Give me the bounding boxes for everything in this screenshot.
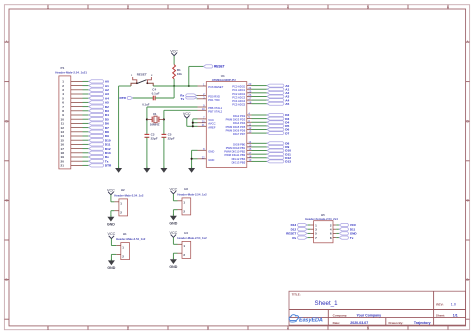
svg-text:VCC: VCC	[107, 188, 115, 192]
title block horizontal divider 1	[289, 309, 466, 311]
svg-text:Header-Male-2.54_1x2: Header-Male-2.54_1x2	[177, 236, 207, 240]
wire XTAL1 vertical	[146, 107, 148, 134]
U1 pin 5 PWM DIG3 PD3 lead	[247, 118, 252, 120]
net flag A4 at P1 pin 5	[89, 97, 104, 100]
header H4 pin 2 lead	[178, 252, 183, 254]
wire to VCC pin 7	[193, 118, 198, 120]
title block horizontal divider 2	[289, 317, 466, 319]
header H1 body	[121, 243, 130, 260]
U1 pin 3 PD1 TXD lead	[198, 98, 207, 100]
U1 pin 13 DIG7 PD7 lead	[247, 132, 252, 134]
header H1 pin 1 lead	[116, 245, 121, 247]
crystal X1 plates and body	[151, 117, 153, 123]
svg-text:PC2 ADC2: PC2 ADC2	[232, 92, 245, 96]
svg-text:RESET: RESET	[137, 72, 147, 76]
wire P1 pin 6 to net flag	[83, 101, 89, 103]
wire P1 pin 11 to net flag	[83, 122, 89, 124]
net flag D4 at U1 pin 6	[267, 121, 284, 124]
ground arrow C5	[163, 167, 165, 169]
ground arrow C3	[146, 167, 148, 169]
net flag D8 at P1 pin 13	[89, 130, 104, 133]
svg-text:D7: D7	[285, 131, 289, 135]
U1 pin 25 PC2 ADC2 lead	[247, 92, 252, 94]
wire GND bus vertical	[191, 150, 193, 168]
wire C4 to reset junction vertical	[155, 97, 174, 99]
svg-text:10k: 10k	[177, 72, 182, 76]
svg-text:1: 1	[47, 326, 49, 330]
frame zone ticks left	[4, 41, 9, 43]
capacitor C5 plates	[162, 133, 167, 135]
U1 pin 20 AVCC lead	[198, 122, 207, 124]
svg-text:GND: GND	[107, 266, 115, 270]
wire P1 pin 18 to net flag	[83, 152, 89, 154]
title block vertical divider right column	[433, 291, 435, 325]
wire R1 bottom to reset net	[173, 79, 175, 86]
svg-text:Trajectory: Trajectory	[414, 321, 431, 325]
net flag DTR at P1 pin 21	[89, 164, 104, 167]
net flag D5 at U1 pin 11	[267, 124, 284, 127]
wire U1 pin 13 to net flag	[252, 132, 268, 134]
P1 pin 7 lead	[71, 106, 83, 108]
svg-text:P1: P1	[61, 66, 65, 70]
U1 pin 11 PWM DIG5 PD5 lead	[247, 125, 252, 127]
U1 pin 12 PWM DIG6 PD6 lead	[247, 128, 252, 130]
pushbutton left lead	[131, 83, 137, 86]
junction GND pins	[191, 158, 193, 160]
wire U1 pin 19 to net flag	[252, 160, 268, 162]
wire H3 pin1 to VCC	[173, 200, 177, 202]
wire U1 pin 27 to net flag	[252, 99, 268, 101]
net flag Tx at P1 pin 20	[89, 160, 104, 163]
P1 pin 14 lead	[71, 135, 83, 137]
P1 pin 15 lead	[71, 139, 83, 141]
wire junction to IC pin 1	[174, 85, 197, 87]
wire P1 pin 14 to net flag	[83, 135, 89, 137]
net flag D13 at U1 pin 19	[267, 160, 284, 163]
junction RESET drop / reset wire	[188, 85, 190, 87]
junction crystal right	[163, 118, 165, 120]
svg-text:Tx: Tx	[181, 97, 185, 101]
net flag VCC at H5 pin 2	[339, 223, 348, 226]
svg-text:DIG4 PD4: DIG4 PD4	[233, 121, 246, 125]
P1 pin 20 lead	[71, 160, 83, 162]
wire U1 pin 26 to net flag	[252, 95, 268, 97]
ground arrow IC	[191, 167, 193, 169]
svg-text:PC5 ADC5: PC5 ADC5	[232, 103, 245, 107]
H5 pin 3 lead	[307, 228, 310, 230]
U1 pin 27 PC4 ADC4 lead	[247, 99, 252, 101]
svg-text:Rx: Rx	[292, 236, 296, 240]
net flag D6 at U1 pin 12	[267, 128, 284, 131]
svg-text:Your Company: Your Company	[357, 313, 382, 317]
svg-text:X1: X1	[153, 112, 157, 116]
wire P1 pin 17 to net flag	[83, 148, 89, 150]
wire H4 pin1 to VCC	[173, 243, 177, 245]
header H2 body	[119, 199, 128, 216]
header H4 body	[182, 241, 191, 258]
H5 pin 4 lead	[333, 228, 336, 230]
H5 pin 6 lead	[333, 232, 336, 234]
net flag D9 at P1 pin 14	[89, 134, 104, 137]
net flag A0 at U1 pin 23	[267, 84, 284, 87]
P1 pin 18 lead	[71, 152, 83, 154]
U1 pin 19 DIG13 PB5 lead	[247, 160, 252, 162]
wire P1 pin 9 to net flag	[83, 114, 89, 116]
svg-text:VCC: VCC	[208, 118, 214, 122]
net flag A5 at P1 pin 6	[89, 101, 104, 104]
net flag A0 at P1 pin 1	[89, 80, 104, 83]
svg-text:Header-Male-2.54_1x2: Header-Male-2.54_1x2	[177, 192, 207, 196]
svg-text:DTR: DTR	[105, 164, 112, 168]
header H1 pin 2 lead	[116, 253, 121, 255]
P1 pin 21 lead	[71, 164, 83, 166]
P1 pin 19 lead	[71, 156, 83, 158]
wire reset button to junction	[153, 85, 174, 87]
svg-text:RESET: RESET	[214, 65, 225, 69]
wire U1 pin 18 to net flag	[252, 157, 268, 159]
pushbutton left bracket	[133, 77, 137, 83]
svg-text:D13: D13	[285, 160, 291, 164]
junction crystal left	[146, 118, 148, 120]
P1 pin 5 lead	[71, 97, 83, 99]
svg-text:Header-Male-2.54_1x21: Header-Male-2.54_1x21	[55, 71, 87, 75]
wire U1 pin 14 to net flag	[252, 142, 268, 144]
svg-text:3: 3	[207, 5, 209, 9]
net flag D5 at P1 pin 10	[89, 118, 104, 121]
svg-text:GND: GND	[208, 149, 214, 153]
wire reset net left segment	[119, 85, 131, 87]
wire P1 pin 13 to net flag	[83, 131, 89, 133]
svg-text:DIG2 PD2: DIG2 PD2	[233, 114, 246, 118]
svg-text:21: 21	[61, 164, 65, 168]
U1 pin 7 VCC lead	[198, 118, 207, 120]
header H3 pin 2 lead	[178, 209, 183, 211]
wire VCC bus vertical	[192, 119, 194, 126]
P1 pin 1 lead	[71, 80, 83, 82]
wire DTR flag to C4	[133, 97, 154, 99]
svg-text:DIG8 PB0: DIG8 PB0	[233, 142, 246, 146]
wire U1 pin 16 to net flag	[252, 150, 268, 152]
wire U1 pin 23 to net flag	[252, 85, 268, 87]
wire P1 pin 16 to net flag	[83, 143, 89, 145]
svg-text:5: 5	[367, 5, 369, 9]
IC U1 body	[206, 82, 247, 168]
svg-text:Sheet:: Sheet:	[436, 313, 445, 317]
ground flag H3	[172, 214, 174, 216]
svg-text:H3: H3	[184, 187, 188, 191]
wire VCC flag to AREF row	[187, 125, 193, 127]
svg-text:PWM DIG10 PB2: PWM DIG10 PB2	[224, 150, 245, 154]
svg-text:DIG7 PD7: DIG7 PD7	[233, 132, 246, 136]
svg-text:VCC: VCC	[108, 232, 116, 236]
net flag D4 at P1 pin 9	[89, 113, 104, 116]
svg-text:ATMEGA328P-PU: ATMEGA328P-PU	[212, 78, 236, 82]
net flag D12 at U1 pin 18	[267, 156, 284, 159]
svg-text:PC6 RESET: PC6 RESET	[208, 85, 223, 89]
wire P1 pin 5 to net flag	[83, 97, 89, 99]
svg-text:AREF: AREF	[208, 125, 216, 129]
net flag D7 at P1 pin 12	[89, 126, 104, 129]
U1 pin 21 AREF lead	[198, 125, 207, 127]
svg-text:H1: H1	[123, 232, 127, 236]
net flag D3 at P1 pin 8	[89, 109, 104, 112]
U1 pin 8 GND lead	[198, 149, 207, 151]
wire H1 pin2 to GND	[111, 253, 116, 255]
svg-text:1/1: 1/1	[453, 313, 458, 317]
svg-text:3: 3	[207, 326, 209, 330]
wire U1 pin 4 to net flag	[252, 114, 268, 116]
pushbutton right bracket	[147, 77, 151, 83]
wire RESET flag vertical drop	[188, 66, 190, 86]
wire H3 pin2 to GND	[173, 209, 177, 211]
net flag GND at H5 pin 6	[339, 232, 348, 235]
P1 pin 17 lead	[71, 148, 83, 150]
ground flag H2	[110, 215, 112, 217]
P1 pin 11 lead	[71, 122, 83, 124]
svg-text:PWM DIG9 PB1: PWM DIG9 PB1	[226, 146, 246, 150]
U1 pin 22 GND lead	[198, 158, 207, 160]
U1 pin 16 PWM DIG10 PB2 lead	[247, 150, 252, 152]
wire U1 pin 28 to net flag	[252, 103, 268, 105]
frame zone ticks top	[47, 5, 49, 9]
title block outline	[289, 291, 466, 325]
ground flag H1	[110, 259, 112, 261]
P1 pin 8 lead	[71, 110, 83, 112]
wire to AREF pin 21	[193, 125, 198, 127]
header H5 body	[314, 221, 333, 243]
header H4 pin 1 lead	[178, 243, 183, 245]
crystal X1 right lead	[159, 118, 164, 120]
svg-text:22pF: 22pF	[168, 137, 175, 141]
net flag D2 at P1 pin 7	[89, 105, 104, 108]
svg-text:4: 4	[287, 5, 289, 9]
svg-text:H2: H2	[121, 188, 125, 192]
net flag D11 at P1 pin 16	[89, 143, 104, 146]
net flag D3 at U1 pin 5	[267, 117, 284, 120]
svg-text:AVCC: AVCC	[208, 122, 215, 126]
net flag RESET top	[203, 65, 212, 68]
svg-text:PC3 ADC3: PC3 ADC3	[232, 95, 245, 99]
net flag A4 at U1 pin 27	[267, 99, 284, 102]
wire P1 pin 7 to net flag	[83, 106, 89, 108]
wire U1 pin 12 to net flag	[252, 128, 268, 130]
U1 pin 23 PC0 ADC0 lead	[247, 85, 252, 87]
svg-text:PWM DIG6 PD6: PWM DIG6 PD6	[226, 128, 246, 132]
net flag D10 at U1 pin 16	[267, 149, 284, 152]
title block vertical divider logo cell	[327, 310, 329, 326]
svg-text:0.1uF: 0.1uF	[142, 103, 150, 107]
wire U1 pin 15 to net flag	[252, 146, 268, 148]
svg-text:PWM DIG3 PD3: PWM DIG3 PD3	[226, 118, 246, 122]
ground arrow reset button	[118, 167, 120, 169]
wire H2 pin1 to VCC	[111, 201, 115, 203]
junction R1 / reset wire	[173, 85, 175, 87]
resistor R1 zigzag	[173, 65, 176, 79]
net flag A1 at P1 pin 2	[89, 84, 104, 87]
U1 pin 10 PB7 XTAL2 lead	[198, 109, 207, 111]
net flag D9 at U1 pin 15	[267, 145, 284, 148]
wire U1 pin 6 to net flag	[252, 121, 268, 123]
net flag D10 at P1 pin 15	[89, 139, 104, 142]
U1 pin 26 PC3 ADC3 lead	[247, 95, 252, 97]
net flag A2 at U1 pin 25	[267, 91, 284, 94]
H5 pin 7 lead	[307, 237, 310, 239]
svg-text:PC4 ADC4: PC4 ADC4	[232, 99, 245, 103]
wire XTAL2 vertical	[163, 110, 165, 134]
svg-text:VCC: VCC	[183, 112, 191, 116]
svg-text:A5: A5	[285, 102, 289, 106]
svg-text:VCC: VCC	[170, 231, 178, 235]
U1 pin 2 PD0 RXD lead	[198, 94, 207, 96]
svg-text:PWM DIG5 PD5: PWM DIG5 PD5	[226, 125, 246, 129]
net flag A1 at U1 pin 24	[267, 88, 284, 91]
U1 pin 9 PB6 XTAL1 lead	[198, 106, 207, 108]
wire P1 pin 1 to net flag	[83, 80, 89, 82]
svg-text:GND: GND	[208, 158, 214, 162]
svg-text:1.0: 1.0	[451, 302, 456, 306]
wire P1 pin 20 to net flag	[83, 160, 89, 162]
svg-text:Date:: Date:	[333, 321, 341, 325]
svg-text:Header-Male-2.54_1x2: Header-Male-2.54_1x2	[114, 193, 144, 197]
svg-text:PC1 ADC1: PC1 ADC1	[232, 88, 245, 92]
wire H1 pin1 to VCC	[111, 245, 116, 247]
wire U1 pin 24 to net flag	[252, 88, 268, 90]
pushbutton contact dots	[136, 82, 138, 84]
net flag A5 at U1 pin 28	[267, 102, 284, 105]
wire U1 pin 11 to net flag	[252, 125, 268, 127]
net flag D12 at P1 pin 17	[89, 147, 104, 150]
connector P1 body	[59, 76, 71, 169]
svg-text:REV:: REV:	[436, 302, 443, 306]
P1 pin 4 lead	[71, 93, 83, 95]
net flag D11 at U1 pin 17	[267, 153, 284, 156]
wire P1 pin 21 to net flag	[83, 164, 89, 166]
wire RESET flag horizontal	[189, 65, 204, 67]
P1 pin 13 lead	[71, 131, 83, 133]
ground flag H4	[172, 258, 174, 260]
svg-text:VCC: VCC	[170, 49, 178, 53]
wire XTAL1 horizontal	[147, 106, 198, 108]
svg-text:Tx: Tx	[350, 236, 354, 240]
EasyEDA logo cloud	[289, 315, 298, 321]
pushbutton right lead	[147, 83, 153, 86]
net flag D6 at P1 pin 11	[89, 122, 104, 125]
wire P1 pin 3 to net flag	[83, 89, 89, 91]
svg-text:DTR: DTR	[120, 96, 127, 100]
U1 pin 15 PWM DIG9 PB1 lead	[247, 146, 252, 148]
svg-text:5: 5	[367, 326, 369, 330]
U1 pin 14 DIG8 PB0 lead	[247, 142, 252, 144]
capacitor C4 plates	[152, 96, 154, 101]
wire P1 pin 10 to net flag	[83, 118, 89, 120]
frame zone ticks right	[466, 41, 470, 43]
P1 pin 12 lead	[71, 127, 83, 129]
capacitor C3 plates	[145, 133, 150, 135]
svg-text:GND: GND	[107, 222, 115, 226]
svg-text:1: 1	[47, 5, 49, 9]
H5 pin 5 lead	[307, 232, 310, 234]
wire GND pin 22	[192, 158, 198, 160]
svg-text:2: 2	[127, 5, 129, 9]
wire P1 pin 2 to net flag	[83, 85, 89, 87]
wire XTAL2 horizontal	[164, 109, 198, 111]
junction AVCC	[192, 122, 194, 124]
svg-text:16MHZ: 16MHZ	[150, 123, 160, 127]
U1 pin 6 DIG4 PD4 lead	[247, 121, 252, 123]
wire U1 pin 17 to net flag	[252, 153, 268, 155]
net flag D7 at U1 pin 13	[267, 132, 284, 135]
svg-text:TITLE:: TITLE:	[292, 293, 301, 297]
wire H2 pin2 to GND	[111, 210, 115, 212]
P1 pin 2 lead	[71, 85, 83, 87]
svg-text:Header-Male-2.54_1x2: Header-Male-2.54_1x2	[116, 237, 146, 241]
svg-text:EasyEDA: EasyEDA	[299, 317, 323, 323]
svg-text:PWM DIG11 PB3: PWM DIG11 PB3	[224, 153, 245, 157]
U1 pin 4 DIG2 PD2 lead	[247, 114, 252, 116]
P1 pin 10 lead	[71, 118, 83, 120]
U1 pin 28 PC5 ADC5 lead	[247, 103, 252, 105]
svg-text:4: 4	[287, 326, 289, 330]
net flag D13 at P1 pin 18	[89, 151, 104, 154]
svg-text:0.1uF: 0.1uF	[152, 92, 160, 96]
svg-text:GND: GND	[169, 221, 177, 225]
net flag A2 at P1 pin 3	[89, 88, 104, 91]
svg-text:2: 2	[127, 326, 129, 330]
svg-text:22pF: 22pF	[151, 137, 158, 141]
svg-text:Company:: Company:	[333, 313, 348, 317]
P1 pin 3 lead	[71, 89, 83, 91]
svg-text:PB7 XTAL2: PB7 XTAL2	[208, 109, 222, 113]
header H3 body	[182, 198, 191, 215]
U1 pin 17 PWM DIG11 PB3 lead	[247, 153, 252, 155]
wire C5 to ground	[163, 137, 165, 168]
U1 pin 18 DIG12 PB4 lead	[247, 157, 252, 159]
wire C3 to ground	[146, 137, 148, 168]
P1 pin 9 lead	[71, 114, 83, 116]
P1 pin 6 lead	[71, 101, 83, 103]
svg-text:Drawn By:: Drawn By:	[389, 321, 404, 325]
wire U1 pin 5 to net flag	[252, 118, 268, 120]
H5 pin 8 lead	[333, 237, 336, 239]
net flag A3 at P1 pin 4	[89, 92, 104, 95]
svg-text:H4: H4	[184, 231, 188, 235]
net flag Tx at H5 pin 8	[339, 236, 348, 239]
net flag D2 at U1 pin 4	[267, 114, 284, 117]
wire reset button gnd vertical	[118, 86, 120, 168]
wire U1 pin 25 to net flag	[252, 92, 268, 94]
frame zone ticks bottom	[47, 326, 49, 330]
svg-text:PD0 RXD: PD0 RXD	[208, 94, 220, 98]
wire P1 pin 12 to net flag	[83, 127, 89, 129]
svg-text:DIG13 PB5: DIG13 PB5	[232, 160, 246, 164]
svg-text:PC0 ADC0: PC0 ADC0	[232, 85, 245, 89]
junction AREF	[192, 125, 194, 127]
wire to AVCC pin 20	[193, 122, 198, 124]
svg-text:6: 6	[447, 5, 449, 9]
wire P1 pin 19 to net flag	[83, 156, 89, 158]
svg-text:GND: GND	[169, 265, 177, 269]
net flag Rx at P1 pin 19	[89, 155, 104, 158]
wire GND pin 8	[192, 149, 198, 151]
header H3 pin 1 lead	[178, 200, 183, 202]
svg-text:Sheet_1: Sheet_1	[315, 300, 339, 307]
svg-text:VCC: VCC	[170, 188, 178, 192]
wire P1 pin 8 to net flag	[83, 110, 89, 112]
header H2 pin 1 lead	[114, 201, 119, 203]
crystal X1 left lead	[147, 118, 152, 120]
svg-text:2020-03-07: 2020-03-07	[350, 321, 368, 325]
U1 pin 1 PC6 RESET lead	[198, 85, 207, 87]
